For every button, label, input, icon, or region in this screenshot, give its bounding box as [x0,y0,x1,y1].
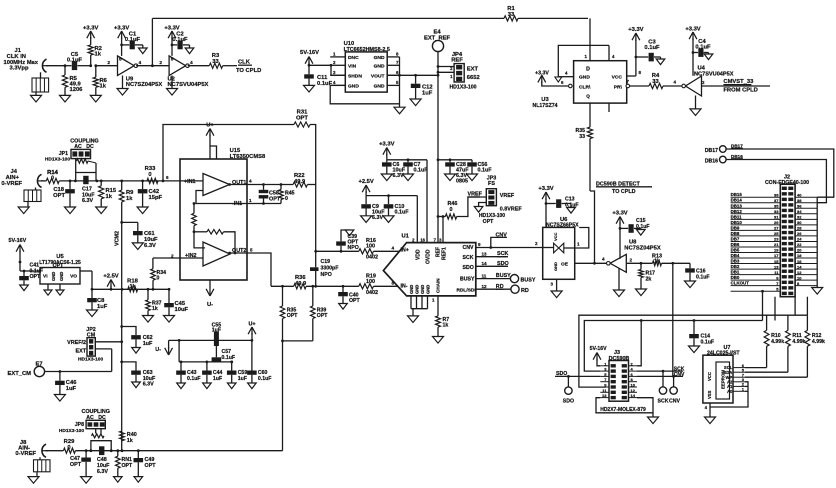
svg-text:0.1uF: 0.1uF [636,224,650,230]
svg-text:16: 16 [420,238,425,243]
svg-text:DB4: DB4 [731,253,740,258]
svg-text:19: 19 [774,248,779,253]
svg-text:DB15: DB15 [731,192,743,197]
svg-text:DB17: DB17 [731,143,743,148]
svg-text:NC7SZ04P5X: NC7SZ04P5X [126,82,163,88]
svg-text:HD1X3-100: HD1X3-100 [45,157,70,163]
svg-text:OPT: OPT [287,313,298,319]
svg-text:VCM2: VCM2 [115,231,121,246]
svg-text:JP8: JP8 [75,422,84,428]
svg-text:TO CPLD: TO CPLD [612,189,636,195]
svg-text:0805: 0805 [456,179,468,185]
svg-text:DB0: DB0 [731,275,740,280]
svg-text:+2.5V: +2.5V [358,179,373,185]
svg-text:2: 2 [107,60,110,66]
svg-text:VCC: VCC [612,74,623,80]
svg-text:1k: 1k [127,438,133,444]
svg-text:DB13: DB13 [731,203,743,208]
svg-text:5V-16V: 5V-16V [9,238,27,244]
svg-text:6.3V: 6.3V [143,382,154,388]
svg-text:0.1uF: 0.1uF [478,168,493,174]
svg-text:38: 38 [797,198,802,203]
svg-text:+3.3V: +3.3V [612,211,627,217]
svg-text:1: 1 [577,242,580,247]
svg-text:4.99k: 4.99k [812,339,825,345]
svg-text:0: 0 [148,172,151,178]
svg-text:15: 15 [774,259,779,264]
svg-text:VDD: VDD [416,249,422,260]
svg-text:SDO: SDO [563,399,574,405]
svg-text:HD2X7-MOLEX-879: HD2X7-MOLEX-879 [600,407,646,413]
svg-text:DB6: DB6 [731,242,740,247]
svg-text:32: 32 [797,215,802,220]
svg-text:13: 13 [482,252,488,257]
svg-text:+3.3V: +3.3V [538,186,553,192]
svg-text:DB17: DB17 [705,148,718,154]
svg-text:HD1X3-100: HD1X3-100 [59,428,84,434]
svg-text:U+: U+ [248,322,255,328]
svg-text:VREF/2: VREF/2 [67,340,86,346]
svg-text:GND: GND [51,272,56,281]
svg-text:0.1uF: 0.1uF [187,376,201,382]
svg-text:1k: 1k [152,306,158,312]
svg-text:3300pF: 3300pF [321,266,339,272]
svg-text:49.9: 49.9 [294,179,306,185]
svg-text:0.1uF: 0.1uF [696,274,710,280]
svg-text:15pF: 15pF [149,195,163,201]
svg-text:DB16: DB16 [705,158,718,164]
svg-text:5: 5 [171,57,174,63]
svg-text:OPT: OPT [30,274,41,280]
svg-text:OPT: OPT [317,313,328,319]
svg-text:0.1uF: 0.1uF [222,355,236,361]
svg-text:DB7: DB7 [731,236,740,241]
svg-text:GND: GND [374,55,385,61]
svg-text:1k: 1k [443,323,449,329]
svg-text:0: 0 [450,207,453,213]
svg-text:DB5: DB5 [731,248,740,253]
svg-text:0: 0 [51,175,54,181]
svg-text:NC7SZ66P5X: NC7SZ66P5X [546,222,579,228]
svg-text:33: 33 [774,209,779,214]
svg-text:1uF: 1uF [422,91,433,97]
svg-text:33: 33 [508,12,515,18]
svg-text:30: 30 [797,220,802,225]
svg-text:FROM CPLD: FROM CPLD [723,88,757,94]
svg-text:OPT: OPT [483,219,494,225]
svg-text:DB8: DB8 [731,231,740,236]
svg-text:0.1uF: 0.1uF [695,45,711,51]
svg-text:SCK: SCK [463,255,474,261]
svg-text:0.1uF: 0.1uF [172,37,188,43]
svg-text:NC7SZ04P5X: NC7SZ04P5X [624,245,661,251]
svg-text:CNV: CNV [669,399,680,405]
svg-text:12: 12 [482,284,488,289]
svg-text:OPT: OPT [349,298,360,304]
svg-text:24: 24 [797,237,802,242]
svg-text:IN+: IN+ [401,248,409,254]
svg-text:14: 14 [631,393,636,398]
svg-text:+2.5V: +2.5V [103,274,118,280]
svg-text:BUSY: BUSY [460,277,475,283]
svg-text:NC7SVU04P5X: NC7SVU04P5X [694,72,734,78]
svg-text:VCC: VCC [553,232,558,241]
svg-text:14: 14 [482,261,488,266]
svg-text:4: 4 [249,179,252,184]
svg-text:CON-EDGE40-100: CON-EDGE40-100 [765,180,809,186]
svg-text:C19: C19 [321,259,331,265]
svg-text:0.1uF: 0.1uF [67,58,83,64]
svg-text:2: 2 [630,258,633,263]
svg-text:0402: 0402 [366,255,378,261]
svg-text:NPO: NPO [348,245,359,251]
svg-text:29: 29 [774,220,779,225]
svg-text:OVDD: OVDD [426,249,432,264]
svg-text:17: 17 [774,253,779,258]
svg-text:0-VREF: 0-VREF [1,181,22,187]
svg-text:EXT: EXT [76,348,87,354]
svg-text:JP1: JP1 [59,151,68,157]
svg-text:BUSY: BUSY [496,273,511,279]
svg-text:13: 13 [774,264,779,269]
svg-text:RD: RD [521,288,529,294]
svg-text:VCC: VCC [707,372,712,381]
svg-text:REF1: REF1 [442,247,448,260]
svg-text:EXT: EXT [467,67,479,73]
svg-text:A0: A0 [727,389,733,394]
svg-text:40: 40 [797,192,802,197]
svg-text:1k: 1k [95,52,102,58]
svg-text:CNV: CNV [674,372,685,378]
svg-text:9: 9 [478,242,481,247]
svg-text:2k: 2k [646,276,652,282]
svg-text:21: 21 [774,242,779,247]
svg-text:6.3V: 6.3V [372,215,383,221]
svg-text:DB10: DB10 [731,220,743,225]
svg-text:IN-: IN- [401,284,408,290]
svg-text:DB3: DB3 [731,259,740,264]
svg-text:33: 33 [579,134,585,140]
svg-text:0.1uF: 0.1uF [644,45,660,51]
svg-text:VIN: VIN [348,63,357,69]
svg-text:100: 100 [366,244,375,250]
svg-text:6: 6 [166,175,169,180]
svg-text:+IN1: +IN1 [184,179,196,185]
svg-text:23: 23 [774,237,779,242]
svg-text:13: 13 [602,393,607,398]
svg-text:VOUT: VOUT [371,73,385,79]
svg-text:0: 0 [285,196,288,202]
svg-text:OE: OE [561,261,569,267]
svg-text:1uF: 1uF [212,328,221,334]
svg-text:4.99k: 4.99k [771,339,784,345]
svg-text:OPT: OPT [53,263,64,269]
svg-text:1k: 1k [100,84,107,90]
svg-text:SDO: SDO [556,371,567,377]
svg-text:DB2: DB2 [731,264,740,269]
svg-text:DB16: DB16 [731,154,743,159]
svg-text:1uF: 1uF [66,386,77,392]
svg-text:1uF: 1uF [213,376,222,382]
svg-text:DB11: DB11 [731,214,743,219]
svg-text:22: 22 [797,242,802,247]
svg-text:CHAIN: CHAIN [436,278,441,293]
svg-text:CLKOUT: CLKOUT [731,281,750,286]
svg-text:GND: GND [374,63,385,69]
svg-text:1uF: 1uF [238,376,247,382]
svg-text:0-VREF: 0-VREF [15,451,36,457]
svg-text:GND: GND [415,285,420,294]
svg-text:28: 28 [797,226,802,231]
svg-text:+3.3V: +3.3V [379,142,394,148]
svg-text:DB9: DB9 [731,225,740,230]
svg-text:10: 10 [631,383,636,388]
svg-text:33: 33 [212,59,219,65]
svg-text:CLR\: CLR\ [579,85,591,91]
svg-text:27: 27 [774,226,779,231]
svg-text:GND: GND [553,262,558,271]
svg-text:1uF: 1uF [143,341,153,347]
svg-text:NL17SZ74: NL17SZ74 [532,103,557,109]
svg-text:VI: VI [43,274,48,280]
svg-text:U+: U+ [206,123,214,129]
svg-text:DB1: DB1 [731,270,740,275]
svg-text:0.1uF: 0.1uF [258,376,272,382]
svg-text:OPT: OPT [145,463,157,469]
svg-text:10uF: 10uF [175,307,189,313]
svg-text:49.9: 49.9 [295,281,307,287]
svg-text:CNV: CNV [496,232,508,238]
svg-text:1k: 1k [130,284,136,290]
svg-text:VREF: VREF [500,193,515,199]
svg-text:R14: R14 [47,170,58,176]
svg-text:DB12: DB12 [731,209,743,214]
svg-text:DNC: DNC [348,55,359,61]
svg-text:SDO: SDO [463,265,474,271]
svg-text:1206: 1206 [70,87,84,93]
svg-text:0.8VREF: 0.8VREF [500,207,523,213]
svg-text:LT6350CMS8: LT6350CMS8 [230,154,266,160]
svg-text:34: 34 [797,209,802,214]
svg-text:1k: 1k [654,259,660,265]
svg-text:14: 14 [797,264,802,269]
svg-text:Q: Q [586,94,590,99]
svg-text:0.1uF: 0.1uF [701,339,715,345]
svg-text:5: 5 [119,57,122,63]
svg-text:37: 37 [774,198,779,203]
svg-text:HD1X3-100: HD1X3-100 [78,357,103,363]
svg-text:D: D [586,67,590,73]
svg-text:OPT: OPT [70,462,82,468]
svg-text:6.3V: 6.3V [82,198,93,204]
svg-text:12: 12 [797,270,802,275]
svg-text:GND: GND [579,74,590,80]
svg-text:4.99k: 4.99k [792,339,805,345]
svg-text:HD1X3-100: HD1X3-100 [449,85,476,91]
svg-text:11: 11 [482,273,487,278]
svg-text:GND: GND [420,285,425,294]
svg-text:CNV: CNV [463,245,474,251]
svg-text:DB14: DB14 [731,198,743,203]
svg-text:U-: U- [207,302,213,308]
svg-text:2: 2 [159,60,162,66]
svg-text:10: 10 [797,275,802,280]
svg-text:18: 18 [797,253,802,258]
svg-text:VSS: VSS [707,390,712,399]
svg-text:NPO: NPO [321,272,332,278]
svg-text:20: 20 [797,248,802,253]
svg-text:REF: REF [451,58,463,64]
svg-text:26: 26 [797,231,802,236]
svg-text:GND: GND [59,272,64,281]
svg-text:25: 25 [774,231,779,236]
svg-text:+3.3V: +3.3V [628,27,643,33]
svg-text:6652: 6652 [467,75,480,81]
svg-text:+3.3V: +3.3V [114,26,129,32]
svg-text:+3.3V: +3.3V [685,27,700,33]
svg-text:6.3V: 6.3V [97,469,108,475]
svg-text:TO CPLD: TO CPLD [236,68,261,74]
svg-text:VO: VO [70,274,77,280]
svg-text:+3.3V: +3.3V [83,26,98,32]
svg-text:OPT: OPT [296,116,308,122]
svg-text:0402: 0402 [366,290,378,296]
svg-text:PR\: PR\ [614,85,623,91]
svg-text:U1: U1 [402,234,410,240]
svg-text:1k: 1k [106,194,113,200]
svg-text:4: 4 [602,257,605,262]
svg-text:31: 31 [774,215,779,220]
svg-text:NC7SVU04P5X: NC7SVU04P5X [168,82,209,88]
svg-text:0: 0 [67,445,70,451]
svg-text:RDL/SDI: RDL/SDI [457,287,477,293]
svg-text:SCK: SCK [658,399,669,405]
svg-text:GND: GND [374,83,385,89]
svg-text:GND: GND [348,83,359,89]
svg-text:5V-16V: 5V-16V [590,346,608,352]
svg-text:2: 2 [535,241,538,246]
svg-text:4: 4 [391,246,394,251]
svg-text:U-: U- [155,347,161,353]
svg-text:BUSY: BUSY [521,277,536,283]
svg-text:1: 1 [249,198,252,203]
svg-text:FS: FS [488,181,495,187]
svg-text:0: 0 [157,276,160,282]
svg-text:5: 5 [250,248,253,253]
svg-text:0.1uF: 0.1uF [125,37,141,43]
svg-text:0.1uF: 0.1uF [565,203,579,209]
svg-text:33: 33 [652,79,659,85]
svg-text:5V-16V: 5V-16V [300,50,319,56]
svg-text:1uF: 1uF [97,304,108,310]
svg-text:GND: GND [409,285,414,294]
svg-text:GND: GND [426,285,431,294]
svg-text:1k: 1k [126,196,133,202]
svg-text:0.1uF: 0.1uF [395,210,410,216]
svg-text:SHDN: SHDN [348,73,362,79]
svg-text:39: 39 [774,192,779,197]
svg-text:35: 35 [774,203,779,208]
svg-text:12: 12 [631,388,636,393]
svg-text:6.3V: 6.3V [144,243,156,249]
svg-text:OPT: OPT [53,193,65,199]
svg-text:0.1uF: 0.1uF [414,168,429,174]
svg-text:36: 36 [797,203,802,208]
svg-text:OPT: OPT [122,463,133,469]
svg-text:16: 16 [797,259,802,264]
svg-text:EXT_CM: EXT_CM [7,371,31,377]
svg-text:3.3Vpp: 3.3Vpp [9,66,28,72]
